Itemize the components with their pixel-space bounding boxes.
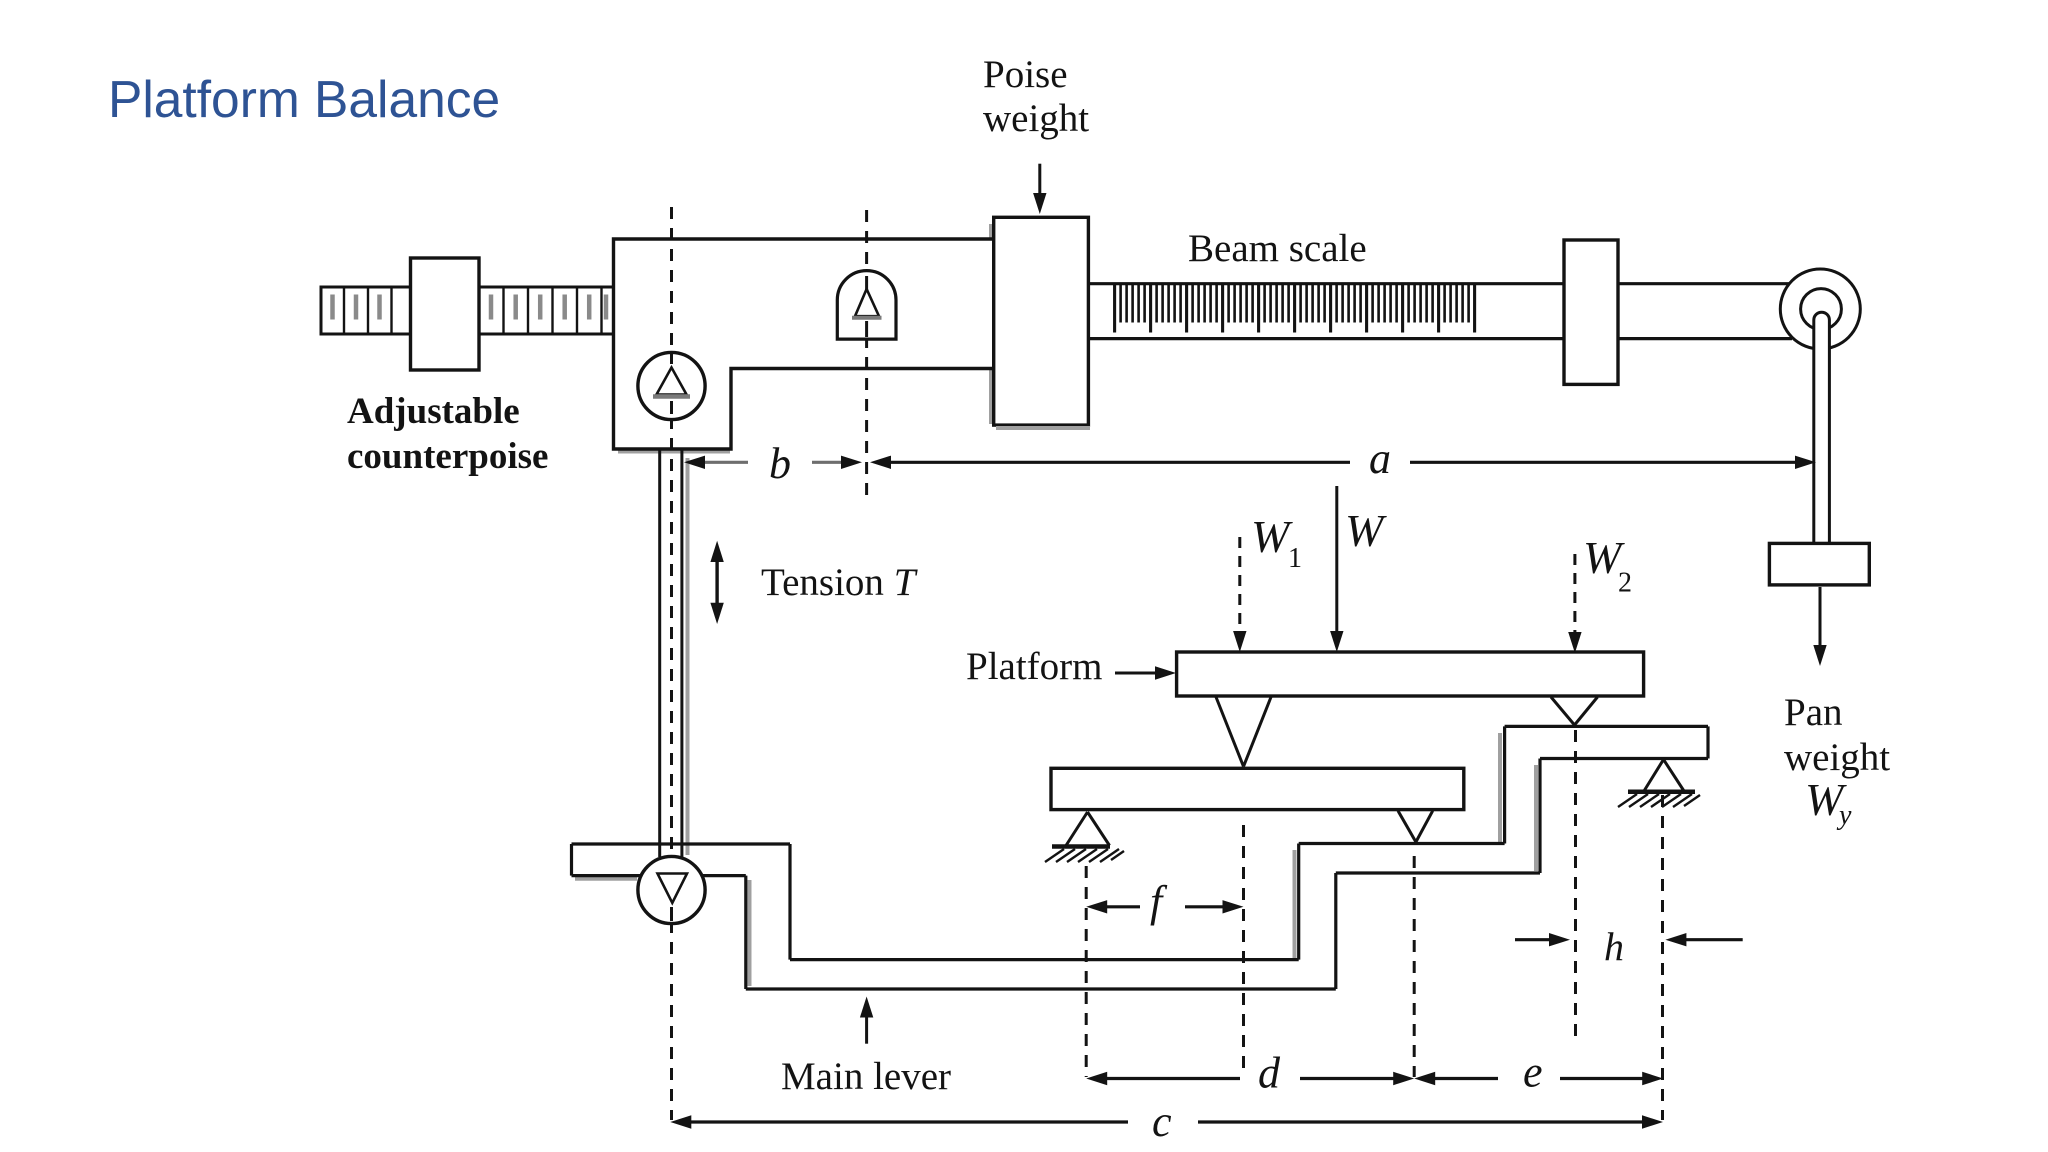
svg-text:Beam scale: Beam scale xyxy=(1188,227,1367,270)
svg-text:W: W xyxy=(1345,505,1387,556)
svg-text:h: h xyxy=(1604,924,1624,969)
svg-text:W: W xyxy=(1251,511,1293,562)
svg-text:Poise: Poise xyxy=(983,53,1068,96)
svg-text:Adjustable: Adjustable xyxy=(347,391,520,432)
svg-text:c: c xyxy=(1152,1097,1172,1146)
svg-text:Pan: Pan xyxy=(1784,691,1843,734)
svg-text:1: 1 xyxy=(1288,543,1302,574)
svg-text:a: a xyxy=(1369,434,1391,483)
svg-text:Main lever: Main lever xyxy=(781,1055,951,1098)
svg-text:2: 2 xyxy=(1618,568,1632,599)
svg-text:counterpoise: counterpoise xyxy=(347,436,548,477)
svg-text:Tension T: Tension T xyxy=(761,561,918,604)
svg-text:b: b xyxy=(769,439,791,488)
svg-text:Platform Balance: Platform Balance xyxy=(108,70,500,128)
svg-text:e: e xyxy=(1523,1048,1543,1097)
svg-text:weight: weight xyxy=(1784,736,1890,779)
svg-text:d: d xyxy=(1258,1049,1281,1098)
svg-text:Platform: Platform xyxy=(966,645,1102,688)
svg-text:weight: weight xyxy=(983,97,1089,140)
svg-text:y: y xyxy=(1836,800,1852,831)
